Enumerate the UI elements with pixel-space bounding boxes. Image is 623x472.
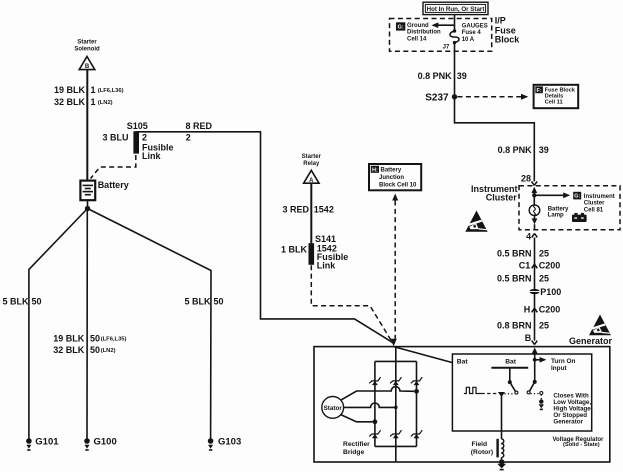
label 19 BLK 50 (LF6,L35) — [53, 333, 126, 343]
stator — [322, 397, 344, 419]
svg-text:50: 50 — [90, 345, 100, 355]
svg-text:B: B — [525, 333, 532, 343]
stator phase wire top — [341, 387, 419, 401]
svg-text:H:: H: — [372, 167, 378, 173]
instrument cluster dashed box — [519, 186, 620, 230]
junction on generator bottom — [499, 459, 504, 464]
label Turn On Input — [551, 358, 575, 372]
label 0.8 BRN 25 — [497, 320, 549, 330]
svg-text:Junction: Junction — [379, 175, 404, 181]
bridge middle column — [395, 347, 397, 462]
bridge left column — [374, 361, 376, 446]
wire hot box to fuse — [454, 15, 456, 31]
svg-text:50: 50 — [90, 333, 100, 343]
svg-text:Cluster: Cluster — [486, 193, 518, 203]
label Instrument Cluster — [471, 184, 518, 203]
svg-text:Hot In Run, Or Start: Hot In Run, Or Start — [427, 6, 485, 13]
dotted from switch 2 to ground contact — [531, 393, 539, 395]
bridge right column — [416, 361, 418, 446]
svg-text:C200: C200 — [539, 305, 561, 315]
svg-text:Cell 11: Cell 11 — [545, 100, 563, 106]
svg-text:G103: G103 — [218, 437, 241, 448]
label Rectifier Bridge — [343, 441, 370, 456]
B terminal arrow inside generator — [532, 347, 538, 359]
label 0.8 PNK 39 — [418, 71, 467, 81]
svg-text:Cell 81: Cell 81 — [584, 208, 604, 214]
ground G100 — [84, 438, 90, 450]
svg-text:(Rotor): (Rotor) — [471, 449, 493, 456]
svg-text:1: 1 — [91, 97, 96, 107]
diode top right — [411, 377, 422, 385]
label Voltage Regulator (Solid - State) — [553, 437, 605, 448]
label 32 BLK 50 (LN2) — [53, 345, 115, 355]
convergence arrow into generator — [390, 339, 396, 346]
svg-text:(LN2): (LN2) — [98, 100, 113, 106]
junction below battery — [85, 206, 90, 211]
bat bus bar — [491, 367, 528, 369]
svg-text:Bat: Bat — [457, 358, 469, 365]
svg-text:1 BLK: 1 BLK — [281, 244, 308, 254]
starter solenoid terminal B triangle — [79, 57, 95, 71]
svg-text:10 A: 10 A — [462, 37, 475, 43]
svg-text:P100: P100 — [540, 287, 561, 297]
svg-text:39: 39 — [539, 145, 549, 155]
label 0.5 BRN 25 — [497, 249, 549, 259]
pin 28 connector — [532, 181, 538, 185]
svg-text:25: 25 — [539, 320, 549, 330]
label 1542 Fusible Link — [317, 243, 349, 270]
label 5 BLK 50 (left) — [3, 297, 42, 307]
svg-text:Cell 14: Cell 14 — [407, 36, 427, 42]
svg-text:5 BLK: 5 BLK — [3, 297, 30, 307]
bridge top bus — [375, 360, 417, 362]
svg-text:GAUGES: GAUGES — [462, 23, 488, 29]
wire coil to generator case ground — [501, 458, 503, 462]
diode top left — [369, 377, 380, 385]
svg-text:Bridge: Bridge — [343, 449, 364, 456]
starter relay terminal A triangle — [304, 170, 319, 184]
generator box — [314, 347, 610, 462]
switch 2 on B wire — [527, 360, 537, 394]
svg-text:Generator: Generator — [569, 336, 613, 346]
svg-text:Solenoid: Solenoid — [74, 47, 100, 53]
svg-text:Field: Field — [472, 441, 488, 448]
label Battery Lamp — [548, 206, 569, 218]
pin 4 connector — [532, 233, 538, 237]
svg-text:A: A — [309, 178, 314, 184]
label Field (Rotor) — [471, 441, 493, 456]
wire fuse to S237 — [454, 43, 456, 97]
arrow down below lamp — [532, 216, 538, 230]
grommet P100 — [529, 287, 561, 297]
ground G103 — [208, 438, 214, 450]
fuse 4 symbol — [450, 29, 459, 44]
svg-text:5 BLK: 5 BLK — [185, 297, 212, 307]
label Fusible Link — [142, 143, 174, 161]
battery lamp — [529, 195, 540, 215]
dashed arrow S237 to F box — [458, 94, 529, 100]
svg-text:Rectifier: Rectifier — [343, 441, 370, 448]
label I/P Fuse Block — [495, 15, 521, 44]
svg-text:G101: G101 — [35, 437, 59, 448]
svg-text:Relay: Relay — [303, 161, 320, 167]
svg-text:0.8 BRN: 0.8 BRN — [497, 320, 532, 330]
svg-text:Link: Link — [317, 260, 336, 270]
starter relay label — [302, 154, 322, 167]
svg-text:Turn On: Turn On — [551, 358, 575, 365]
svg-text:0.8 PNK: 0.8 PNK — [418, 71, 453, 81]
arrow up at pin 28 inside cluster — [531, 187, 537, 196]
svg-text:50: 50 — [32, 297, 42, 307]
pin B connector — [532, 341, 538, 345]
wire S237 to instrument cluster — [455, 97, 535, 182]
svg-text:50: 50 — [214, 297, 224, 307]
fusible link S141 bar — [309, 243, 315, 265]
connector H C200 — [524, 305, 561, 315]
label 19 BLK 1 (LF6,L36) — [54, 85, 124, 95]
G: instrument cluster ref — [573, 192, 615, 214]
wire to G103 — [88, 209, 212, 439]
connector C1 C200 — [519, 261, 561, 271]
svg-text:Battery: Battery — [98, 180, 129, 190]
label 0.8 PNK 39 (second) — [498, 145, 549, 155]
svg-text:Starter: Starter — [302, 154, 322, 160]
diode top middle — [390, 377, 401, 385]
svg-text:25: 25 — [539, 274, 549, 284]
svg-text:28: 28 — [521, 174, 531, 184]
bridge bottom bus — [375, 445, 417, 447]
svg-text:Distribution: Distribution — [407, 30, 441, 36]
svg-text:19 BLK: 19 BLK — [53, 333, 85, 343]
svg-text:(Solid - State): (Solid - State) — [563, 442, 600, 448]
svg-text:C1: C1 — [519, 261, 531, 271]
svg-text:39: 39 — [457, 71, 467, 81]
field contact — [498, 392, 505, 397]
wire battery to ground junction — [87, 200, 89, 208]
voltage regulator box — [452, 354, 591, 431]
ESD symbol (generator) — [589, 315, 611, 336]
stator phase wire middle — [344, 403, 398, 409]
svg-text:4: 4 — [526, 232, 531, 242]
svg-text:Stator: Stator — [324, 405, 343, 412]
dashed wire to H box with up arrow — [392, 194, 398, 343]
pulse waveform — [464, 387, 481, 393]
label 0.5 BRN 25 (second) — [497, 274, 549, 284]
wire to G100 — [86, 209, 88, 439]
svg-text:Fuse 4: Fuse 4 — [462, 30, 482, 36]
svg-text:Starter: Starter — [77, 40, 97, 46]
svg-text:Battery: Battery — [548, 206, 569, 212]
svg-text:Block: Block — [495, 35, 521, 45]
ground G101 — [26, 438, 32, 450]
svg-text:(LF6,L35): (LF6,L35) — [101, 337, 127, 343]
battery — [80, 181, 95, 201]
regulator ground contact — [539, 392, 544, 410]
dashed pulse to field contact — [481, 393, 498, 395]
svg-text:H: H — [524, 305, 531, 315]
fusible link S105 bar — [133, 131, 139, 153]
svg-text:0.8 PNK: 0.8 PNK — [498, 145, 533, 155]
svg-text:1542: 1542 — [314, 205, 334, 215]
svg-text:Ground: Ground — [407, 23, 429, 29]
starter solenoid label — [74, 40, 100, 53]
svg-text:2: 2 — [142, 133, 147, 143]
G: ground distribution ref — [396, 22, 441, 42]
svg-text:G:: G: — [397, 25, 403, 31]
svg-text:J7: J7 — [443, 44, 450, 50]
hot in run box — [423, 2, 488, 14]
svg-text:B: B — [85, 64, 90, 70]
field coil — [498, 439, 504, 458]
svg-text:25: 25 — [539, 249, 549, 259]
ground below generator — [497, 464, 506, 470]
stator phase wire bottom — [341, 415, 378, 425]
svg-text:G100: G100 — [94, 437, 117, 448]
label GAUGES Fuse 4 10 A — [462, 23, 488, 43]
arrow to ground distribution — [432, 22, 455, 28]
svg-text:Input: Input — [551, 365, 567, 372]
wire relay to S141 — [310, 183, 312, 243]
svg-text:(LN2): (LN2) — [101, 348, 116, 354]
diode bottom middle — [390, 430, 401, 438]
wire to G101 — [29, 209, 88, 439]
svg-text:Instrument: Instrument — [584, 194, 615, 200]
wire 8 RED path to generator — [136, 132, 393, 343]
I/P fuse block dashed box — [390, 19, 492, 52]
svg-text:Generator: Generator — [553, 419, 583, 426]
wire junction to turn on input — [533, 358, 537, 362]
svg-text:C200: C200 — [539, 261, 561, 271]
svg-text:I/P: I/P — [495, 15, 506, 25]
svg-text:3 BLU: 3 BLU — [102, 133, 128, 143]
svg-text:Battery: Battery — [381, 168, 402, 174]
svg-text:Cluster: Cluster — [584, 201, 605, 207]
svg-text:F:: F: — [536, 88, 541, 94]
diode bottom right — [411, 430, 422, 438]
svg-text:19 BLK: 19 BLK — [54, 85, 86, 95]
svg-text:S237: S237 — [425, 92, 449, 103]
label 5 BLK 50 (right) — [185, 297, 224, 307]
arrow to instrument cluster cell 81 — [534, 192, 570, 198]
svg-text:3 RED: 3 RED — [282, 205, 309, 215]
wire bat diagonal into regulator — [394, 347, 453, 363]
switch 1 from bat bar — [508, 368, 518, 394]
dashed link battery to S105 — [91, 155, 136, 179]
svg-text:Link: Link — [142, 151, 161, 161]
svg-text:Lamp: Lamp — [548, 213, 564, 219]
ESD symbol (instrument cluster) — [465, 211, 487, 232]
svg-text:(LF6,L36): (LF6,L36) — [98, 88, 124, 94]
svg-text:32 BLK: 32 BLK — [53, 345, 85, 355]
svg-text:Bat: Bat — [505, 358, 517, 365]
svg-text:1: 1 — [91, 85, 96, 95]
diode bottom left — [369, 430, 380, 438]
svg-text:2: 2 — [186, 133, 191, 143]
svg-text:32 BLK: 32 BLK — [54, 97, 86, 107]
dotted to switch 1 — [505, 393, 515, 395]
svg-text:S105: S105 — [127, 121, 148, 131]
svg-text:0.5 BRN: 0.5 BRN — [497, 249, 532, 259]
wire field contact down to coil — [501, 396, 503, 439]
svg-text:Block Cell 10: Block Cell 10 — [379, 182, 417, 188]
label 32 BLK 1 (LN2) — [54, 97, 113, 107]
wire cluster to generator B — [534, 237, 536, 340]
H: battery junction block box — [369, 164, 421, 190]
wire solenoid to battery — [86, 70, 88, 181]
svg-text:8 RED: 8 RED — [186, 121, 213, 131]
junction in cluster — [532, 193, 536, 197]
svg-text:0.5 BRN: 0.5 BRN — [497, 274, 532, 284]
dashed wire S141 to generator — [311, 265, 392, 341]
battery icon — [572, 213, 587, 222]
F: fuse block details box — [534, 85, 579, 108]
label 3 RED 1542 — [282, 205, 333, 215]
label Closes With ... — [553, 392, 592, 425]
splice S237 — [425, 92, 457, 103]
svg-text:G:: G: — [574, 194, 580, 200]
